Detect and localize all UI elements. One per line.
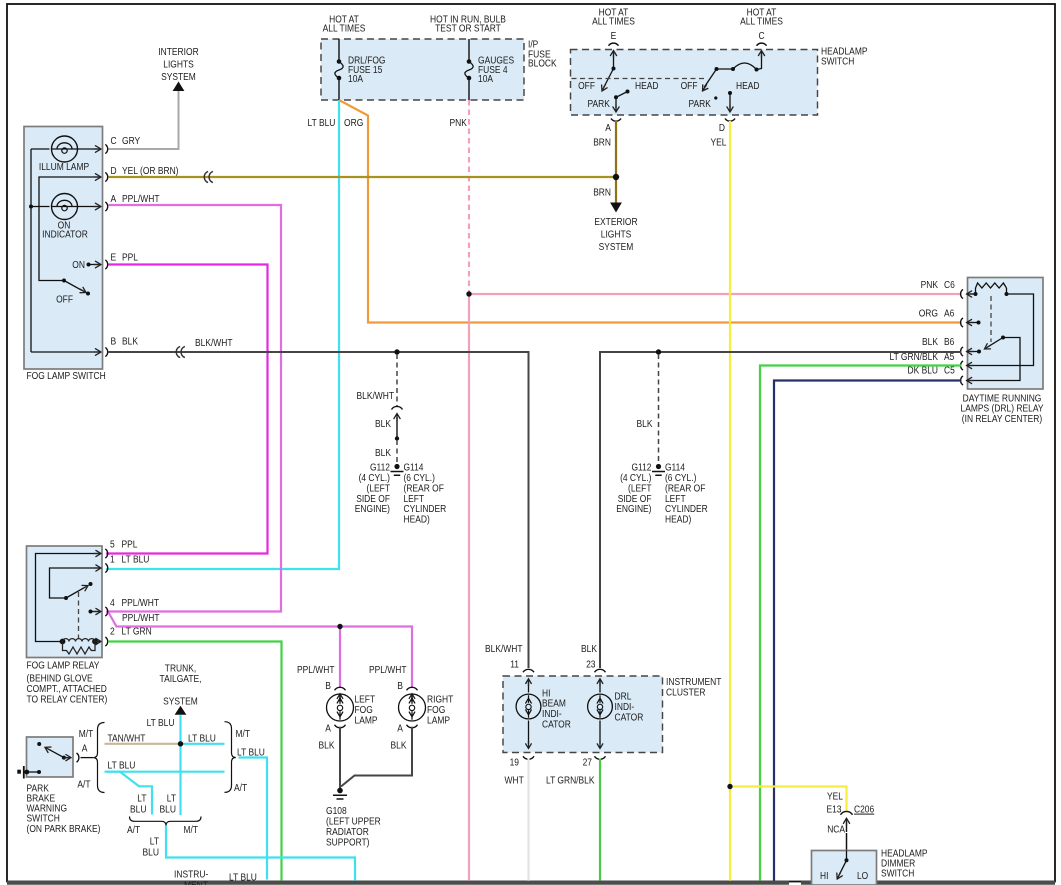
instrument cluster pin 19	[523, 756, 534, 759]
svg-text:ENGINE): ENGINE)	[355, 504, 390, 515]
svg-text:(LEFT: (LEFT	[628, 483, 652, 494]
svg-text:LT: LT	[167, 794, 176, 805]
svg-text:A: A	[605, 123, 611, 134]
svg-text:PPL/WHT: PPL/WHT	[122, 598, 160, 609]
fog lamp switch pin B	[105, 347, 107, 356]
svg-text:INDICATOR: INDICATOR	[42, 230, 88, 241]
svg-text:WHT: WHT	[505, 775, 524, 786]
wire YEL continues down	[729, 787, 731, 881]
svg-text:CATOR: CATOR	[615, 713, 644, 724]
wire LT GRN/BLK from DRL relay pin A5 to bottom	[760, 366, 962, 881]
wire YEL (OR BRN) from fog lamp switch pin D to brown junction	[109, 176, 617, 178]
wire LT BLU A/T branch	[105, 771, 225, 773]
fog lamp switch pin C	[105, 144, 107, 153]
svg-text:E13: E13	[827, 805, 842, 816]
svg-text:TAN/WHT: TAN/WHT	[108, 733, 146, 744]
svg-text:A6: A6	[944, 309, 955, 320]
svg-text:11: 11	[510, 660, 519, 671]
arrow to trunk tailgate system	[175, 706, 187, 715]
svg-text:TAILGATE,: TAILGATE,	[160, 674, 202, 685]
junction YEL	[727, 784, 732, 789]
wire PPL from fog lamp switch pin E to fog lamp relay pin 5	[106, 265, 268, 554]
DRL relay pin C5	[961, 376, 963, 385]
illumination lamp (ILLUM LAMP)	[52, 136, 78, 162]
svg-text:PNK: PNK	[450, 118, 468, 129]
svg-text:4: 4	[110, 598, 115, 609]
ON contact	[87, 263, 91, 267]
DRL relay pin B6	[961, 347, 963, 356]
svg-text:INTERIOR: INTERIOR	[158, 47, 198, 58]
svg-text:B: B	[325, 681, 331, 692]
hi beam indicator lamp	[528, 681, 530, 693]
wire BRN from headlamp switch pin A	[615, 121, 617, 177]
DRL relay arm to pin C5 internal wire	[969, 338, 1021, 381]
connector C206	[841, 811, 853, 814]
svg-text:ORG: ORG	[919, 309, 938, 320]
svg-text:RIGHT: RIGHT	[427, 695, 453, 706]
svg-text:LEFT: LEFT	[665, 494, 686, 505]
junction PNK	[466, 291, 471, 296]
fog lamp relay pin 4 stub	[89, 610, 93, 614]
wire PPL/WHT to left fog lamp	[339, 627, 341, 688]
svg-text:BLK: BLK	[922, 337, 938, 348]
svg-text:D: D	[719, 123, 725, 134]
svg-text:(IN RELAY CENTER): (IN RELAY CENTER)	[962, 414, 1042, 425]
dashed BLK/WHT wire to ground	[396, 354, 398, 406]
DRL relay switch arm	[1001, 336, 1005, 340]
fog lamp switch pin E	[105, 260, 107, 269]
headlamp switch pole 1 park-head contact	[614, 95, 618, 99]
svg-text:M/T: M/T	[236, 729, 251, 740]
wire LT BLU A/T to underbrace	[107, 772, 152, 815]
svg-text:FOG: FOG	[427, 705, 445, 716]
DRL relay pin A5	[961, 361, 963, 370]
svg-text:(BEHIND GLOVE: (BEHIND GLOVE	[27, 674, 93, 685]
svg-text:LT: LT	[150, 836, 159, 847]
svg-text:(ON PARK BRAKE): (ON PARK BRAKE)	[27, 824, 101, 835]
svg-text:HI: HI	[820, 871, 828, 882]
headlamp switch pin E	[609, 43, 619, 46]
instrument cluster pin 27	[595, 756, 606, 759]
fog lamp relay pin 4	[105, 607, 107, 616]
svg-text:COMPT., ATTACHED: COMPT., ATTACHED	[27, 684, 107, 695]
svg-text:SWITCH: SWITCH	[821, 57, 854, 68]
svg-text:BLK: BLK	[375, 448, 391, 459]
junction PPL/WHT	[337, 624, 342, 629]
svg-text:DAYTIME RUNNING: DAYTIME RUNNING	[963, 393, 1042, 404]
svg-text:PPL/WHT: PPL/WHT	[369, 665, 407, 676]
wire PPL/WHT from fog lamp switch pin A to fog lamp relay pin 4	[106, 205, 281, 612]
DRL relay coil to pin A5 internal wire	[969, 294, 1034, 366]
park brake switch case ground	[17, 770, 21, 774]
arrow to interior lights system	[173, 82, 185, 92]
svg-text:CLUSTER: CLUSTER	[666, 687, 706, 698]
headlamp switch pole 1	[613, 53, 615, 69]
dashed BLK wire to ground right	[658, 354, 660, 463]
fog lamp switch pin D	[105, 172, 107, 181]
fog lamp relay pin 5	[105, 549, 107, 558]
svg-text:LAMP: LAMP	[355, 716, 378, 727]
svg-text:FOG LAMP RELAY: FOG LAMP RELAY	[27, 660, 100, 671]
fog lamp relay K2	[27, 546, 103, 658]
svg-text:BLK: BLK	[637, 419, 653, 430]
svg-text:NCA: NCA	[827, 824, 845, 835]
svg-text:ALL TIMES: ALL TIMES	[592, 17, 635, 28]
svg-text:HEAD: HEAD	[736, 81, 760, 92]
inline connector on YEL (OR BRN) wire	[204, 171, 208, 182]
headlamp switch pin A	[611, 119, 621, 122]
svg-text:BLU: BLU	[160, 804, 177, 815]
junction on internal bus	[29, 205, 33, 209]
svg-text:PPL/WHT: PPL/WHT	[122, 194, 160, 205]
headlamp switch pin A wire	[615, 97, 617, 108]
left brace M/T A/T split	[93, 723, 104, 793]
svg-text:(LEFT UPPER: (LEFT UPPER	[326, 817, 381, 828]
OFF contact	[86, 292, 90, 296]
svg-text:TRUNK,: TRUNK,	[165, 664, 196, 675]
svg-text:C: C	[111, 136, 117, 147]
svg-text:LEFT: LEFT	[404, 494, 425, 505]
svg-text:M/T: M/T	[184, 825, 199, 836]
svg-text:FOG LAMP SWITCH: FOG LAMP SWITCH	[27, 371, 106, 382]
park brake switch contacts	[37, 742, 41, 746]
svg-text:LAMP: LAMP	[427, 716, 450, 727]
svg-text:LEFT: LEFT	[355, 695, 376, 706]
wire WHT from pin 19 to bottom	[527, 759, 529, 881]
svg-text:INDI-: INDI-	[542, 709, 562, 720]
fog lamp relay switch arm	[64, 596, 68, 600]
svg-text:OFF: OFF	[681, 81, 698, 92]
svg-text:A: A	[397, 724, 403, 735]
svg-text:ALL TIMES: ALL TIMES	[323, 24, 366, 35]
svg-text:RADIATOR: RADIATOR	[326, 827, 369, 838]
headlamp switch pin C	[757, 43, 767, 46]
daytime running lamps DRL relay K1	[968, 278, 1044, 390]
instrument cluster	[503, 676, 663, 753]
svg-text:EXTERIOR: EXTERIOR	[594, 217, 637, 228]
wire LT BLU from underbrace to bottom instrument illumination	[166, 826, 355, 881]
fog lamp relay actuator dashed	[78, 592, 80, 639]
svg-text:SYSTEM: SYSTEM	[599, 242, 634, 253]
svg-text:23: 23	[586, 660, 596, 671]
svg-text:DRL: DRL	[615, 692, 632, 703]
svg-text:INDI-: INDI-	[615, 702, 635, 713]
fog lamp relay pin 1 internal wire	[50, 568, 99, 598]
svg-text:LT BLU: LT BLU	[122, 554, 150, 565]
ground G112/G114 left	[394, 464, 399, 469]
svg-text:LT BLU: LT BLU	[229, 873, 257, 884]
internal linkage dashed	[572, 78, 706, 80]
svg-text:HI: HI	[542, 688, 550, 699]
svg-text:A/T: A/T	[77, 780, 90, 791]
svg-text:LIGHTS: LIGHTS	[163, 60, 194, 71]
svg-text:PARK: PARK	[588, 99, 611, 110]
svg-text:BLOCK: BLOCK	[528, 59, 557, 70]
DRL indicator lamp	[599, 681, 601, 693]
svg-text:YEL: YEL	[827, 792, 843, 803]
svg-text:(LEFT: (LEFT	[367, 483, 391, 494]
headlamp dimmer switch S4	[812, 851, 877, 885]
svg-text:OFF: OFF	[578, 81, 595, 92]
fuse F4 GAUGES 10A	[468, 39, 470, 100]
svg-text:CYLINDER: CYLINDER	[665, 504, 708, 515]
svg-text:PPL/WHT: PPL/WHT	[122, 613, 160, 624]
wire YEL to connector C206	[730, 787, 847, 813]
underbrace A/T M/T merge	[130, 817, 202, 826]
svg-text:HEAD): HEAD)	[665, 515, 691, 526]
svg-text:BRN: BRN	[593, 188, 611, 199]
svg-text:(4 CYL.): (4 CYL.)	[620, 473, 651, 484]
ON indicator lamp	[52, 194, 78, 220]
svg-text:SWITCH: SWITCH	[881, 868, 914, 879]
svg-text:OFF: OFF	[56, 295, 73, 306]
svg-text:BLK: BLK	[375, 419, 391, 430]
svg-text:BLK/WHT: BLK/WHT	[485, 644, 523, 655]
svg-text:G114: G114	[404, 463, 424, 474]
svg-text:A5: A5	[944, 352, 955, 363]
svg-text:CYLINDER: CYLINDER	[404, 504, 447, 515]
svg-text:SIDE OF: SIDE OF	[618, 494, 652, 505]
svg-text:M/T: M/T	[79, 729, 94, 740]
svg-text:PPL/WHT: PPL/WHT	[297, 665, 335, 676]
svg-text:BEAM: BEAM	[542, 699, 566, 710]
svg-text:LT: LT	[137, 794, 146, 805]
wire BLK from left fog lamp	[339, 727, 341, 788]
svg-text:PNK: PNK	[921, 280, 939, 291]
junction	[395, 436, 399, 440]
wire LT BLU from right brace merge to bottom	[239, 758, 268, 880]
svg-text:10A: 10A	[478, 74, 493, 85]
wire LT GRN/BLK from pin 27 to bottom	[599, 759, 601, 881]
svg-text:DK BLU: DK BLU	[908, 366, 939, 377]
svg-text:PPL: PPL	[122, 540, 138, 551]
wire BLK from right fog lamp	[341, 727, 412, 787]
svg-text:B: B	[397, 681, 403, 692]
svg-text:LAMPS (DRL) RELAY: LAMPS (DRL) RELAY	[961, 404, 1044, 415]
park brake warning switch S3	[27, 737, 74, 777]
svg-text:LT BLU: LT BLU	[147, 718, 175, 729]
svg-text:(REAR OF: (REAR OF	[665, 483, 705, 494]
fog lamp switch internal bus wire	[31, 149, 50, 352]
svg-text:BLK: BLK	[391, 741, 407, 752]
svg-text:LIGHTS: LIGHTS	[601, 230, 632, 241]
wire to headlamp dimmer switch	[846, 833, 848, 851]
junction BLK ground tap	[656, 349, 661, 354]
svg-text:A: A	[82, 744, 88, 755]
svg-text:LT GRN: LT GRN	[122, 626, 152, 637]
svg-text:(4 CYL.): (4 CYL.)	[359, 473, 390, 484]
svg-text:G108: G108	[326, 806, 347, 817]
wire YEL from headlamp switch pin D	[729, 121, 731, 787]
svg-text:LT BLU: LT BLU	[188, 733, 216, 744]
wire PPL/WHT from fog lamp relay pin 4 to fog lamps	[109, 613, 413, 688]
svg-text:B: B	[111, 337, 117, 348]
svg-text:ENGINE): ENGINE)	[616, 504, 651, 515]
fog lamp switch pin A	[105, 202, 107, 211]
svg-text:LT GRN/BLK: LT GRN/BLK	[890, 352, 939, 363]
wire ORG from fuse 15 to DRL relay pin A6	[339, 100, 962, 323]
svg-text:SIDE OF: SIDE OF	[356, 494, 390, 505]
svg-text:5: 5	[110, 540, 115, 551]
wire GRY from fog lamp switch pin C to interior lights system	[109, 91, 179, 149]
svg-text:BRN: BRN	[593, 138, 611, 149]
junction BLK/WHT ground tap	[394, 349, 399, 354]
svg-text:HEAD): HEAD)	[404, 515, 430, 526]
svg-text:LT BLU: LT BLU	[108, 761, 136, 772]
svg-text:2: 2	[110, 626, 115, 637]
svg-text:(6 CYL.): (6 CYL.)	[665, 473, 696, 484]
wire BRN to exterior lights system	[615, 177, 617, 203]
svg-text:TO RELAY CENTER): TO RELAY CENTER)	[27, 695, 108, 706]
svg-text:A/T: A/T	[234, 783, 247, 794]
DRL relay actuator dashed	[990, 296, 992, 342]
wire DK BLU from DRL relay pin C5 to bottom	[774, 381, 962, 881]
I/P fuse block	[321, 39, 524, 100]
svg-text:INSTRU-: INSTRU-	[174, 870, 208, 881]
junction TAN/WHT - LT BLU	[178, 741, 183, 746]
svg-text:SYSTEM: SYSTEM	[161, 72, 196, 83]
ground G108	[337, 788, 343, 794]
svg-text:C: C	[758, 31, 764, 42]
svg-text:C206: C206	[854, 805, 875, 816]
svg-text:YEL: YEL	[711, 138, 727, 149]
headlamp switch S2	[571, 50, 818, 116]
wire BLK from instrument cluster pin 23 to DRL relay pin B6	[600, 352, 962, 668]
svg-text:BLK/WHT: BLK/WHT	[195, 338, 233, 349]
svg-text:C5: C5	[944, 366, 955, 377]
svg-text:ON: ON	[72, 260, 85, 271]
svg-text:19: 19	[510, 758, 520, 769]
svg-text:GRY: GRY	[122, 136, 140, 147]
svg-text:ALL TIMES: ALL TIMES	[740, 17, 783, 28]
svg-text:C6: C6	[944, 280, 955, 291]
fog lamp relay pin 2	[105, 637, 107, 646]
svg-text:BLK/WHT: BLK/WHT	[357, 391, 395, 402]
svg-text:PARK: PARK	[689, 99, 712, 110]
svg-text:YEL (OR BRN): YEL (OR BRN)	[122, 166, 179, 177]
DRL relay coil resistor	[976, 288, 1007, 294]
svg-text:10A: 10A	[348, 74, 363, 85]
wire LT BLU trunk feed down	[179, 715, 181, 815]
right brace M/T A/T merge	[225, 722, 236, 793]
svg-text:LT GRN/BLK: LT GRN/BLK	[546, 775, 595, 786]
svg-text:27: 27	[583, 758, 593, 769]
svg-text:E: E	[111, 253, 117, 264]
fog lamp switch pin D feed wire	[39, 177, 99, 281]
headlamp switch pin D	[725, 119, 735, 122]
DRL relay pin A6	[961, 318, 963, 327]
svg-text:HEAD: HEAD	[635, 81, 659, 92]
svg-text:G112: G112	[370, 463, 390, 474]
svg-text:FOG: FOG	[355, 705, 373, 716]
wire PNK down to bottom	[468, 294, 470, 881]
svg-text:BLK: BLK	[122, 337, 138, 348]
wire PNK to DRL relay pin C6	[469, 293, 962, 295]
DRL relay pin A6 stub	[977, 321, 981, 325]
inline connector to ground	[392, 406, 403, 409]
svg-text:CATOR: CATOR	[542, 720, 571, 731]
svg-text:(REAR OF: (REAR OF	[404, 483, 444, 494]
svg-text:D: D	[111, 166, 117, 177]
junction BRN with YEL (OR BRN)	[613, 174, 619, 180]
DRL relay pin C6	[961, 289, 963, 298]
svg-text:INSTRUMENT: INSTRUMENT	[666, 677, 721, 688]
fuse F15 DRL/FOG 10A	[338, 39, 340, 100]
svg-text:SWITCH: SWITCH	[27, 814, 60, 825]
wire LT GRN from fog lamp relay pin 2 to bottom	[108, 642, 282, 881]
headlamp switch pin D wire	[729, 93, 731, 109]
svg-text:1: 1	[110, 554, 115, 565]
headlamp switch pole 2	[715, 67, 719, 71]
svg-text:BLK: BLK	[581, 644, 597, 655]
svg-text:PPL: PPL	[122, 253, 138, 264]
wire BLK/BLK-WHT from fog lamp switch pin B to instrument cluster pin 11	[109, 352, 529, 668]
wire LT BLU from junction to right brace	[181, 743, 225, 745]
fog lamp switch S1	[24, 127, 103, 370]
svg-text:TEST OR START: TEST OR START	[435, 24, 501, 35]
wire TAN/WHT M/T branch	[105, 743, 179, 745]
park brake switch pin A	[77, 753, 79, 762]
svg-text:A/T: A/T	[127, 825, 140, 836]
svg-text:A: A	[111, 194, 117, 205]
svg-text:ORG: ORG	[344, 118, 363, 129]
dashed BLK wire	[396, 440, 398, 463]
svg-text:G112: G112	[632, 463, 652, 474]
svg-text:B6: B6	[944, 337, 955, 348]
fog lamp relay pin 5 internal bus	[36, 554, 99, 642]
fog lamp switch pin B wire	[31, 351, 99, 353]
svg-text:MENT: MENT	[184, 881, 208, 885]
svg-text:BLK: BLK	[319, 741, 335, 752]
svg-text:BLU: BLU	[143, 847, 160, 858]
fog lamp switch toggle arm	[62, 279, 66, 283]
svg-text:SUPPORT): SUPPORT)	[326, 838, 370, 849]
wire PNK dashed from fuse 4	[468, 100, 470, 293]
inline connector on BLK/WHT wire	[176, 346, 180, 357]
svg-text:(6 CYL.): (6 CYL.)	[404, 473, 435, 484]
svg-text:A: A	[325, 724, 331, 735]
svg-text:E: E	[611, 31, 617, 42]
svg-text:ILLUM LAMP: ILLUM LAMP	[39, 162, 90, 173]
svg-text:G114: G114	[665, 463, 685, 474]
svg-text:BLU: BLU	[130, 804, 147, 815]
ground G112/G114 right	[656, 464, 661, 469]
wire LT BLU from fuse 15 down to fog lamp relay pin 1	[106, 100, 339, 569]
fog lamp relay coil	[60, 639, 66, 645]
svg-text:LO: LO	[857, 871, 868, 882]
fog lamp relay pin 1	[105, 563, 107, 572]
svg-text:LT BLU: LT BLU	[308, 118, 336, 129]
